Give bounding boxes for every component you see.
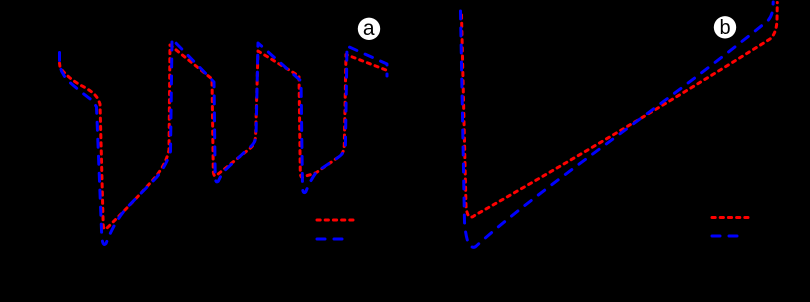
svg-text:b: b [719,17,730,39]
svg-text:a: a [363,17,375,40]
